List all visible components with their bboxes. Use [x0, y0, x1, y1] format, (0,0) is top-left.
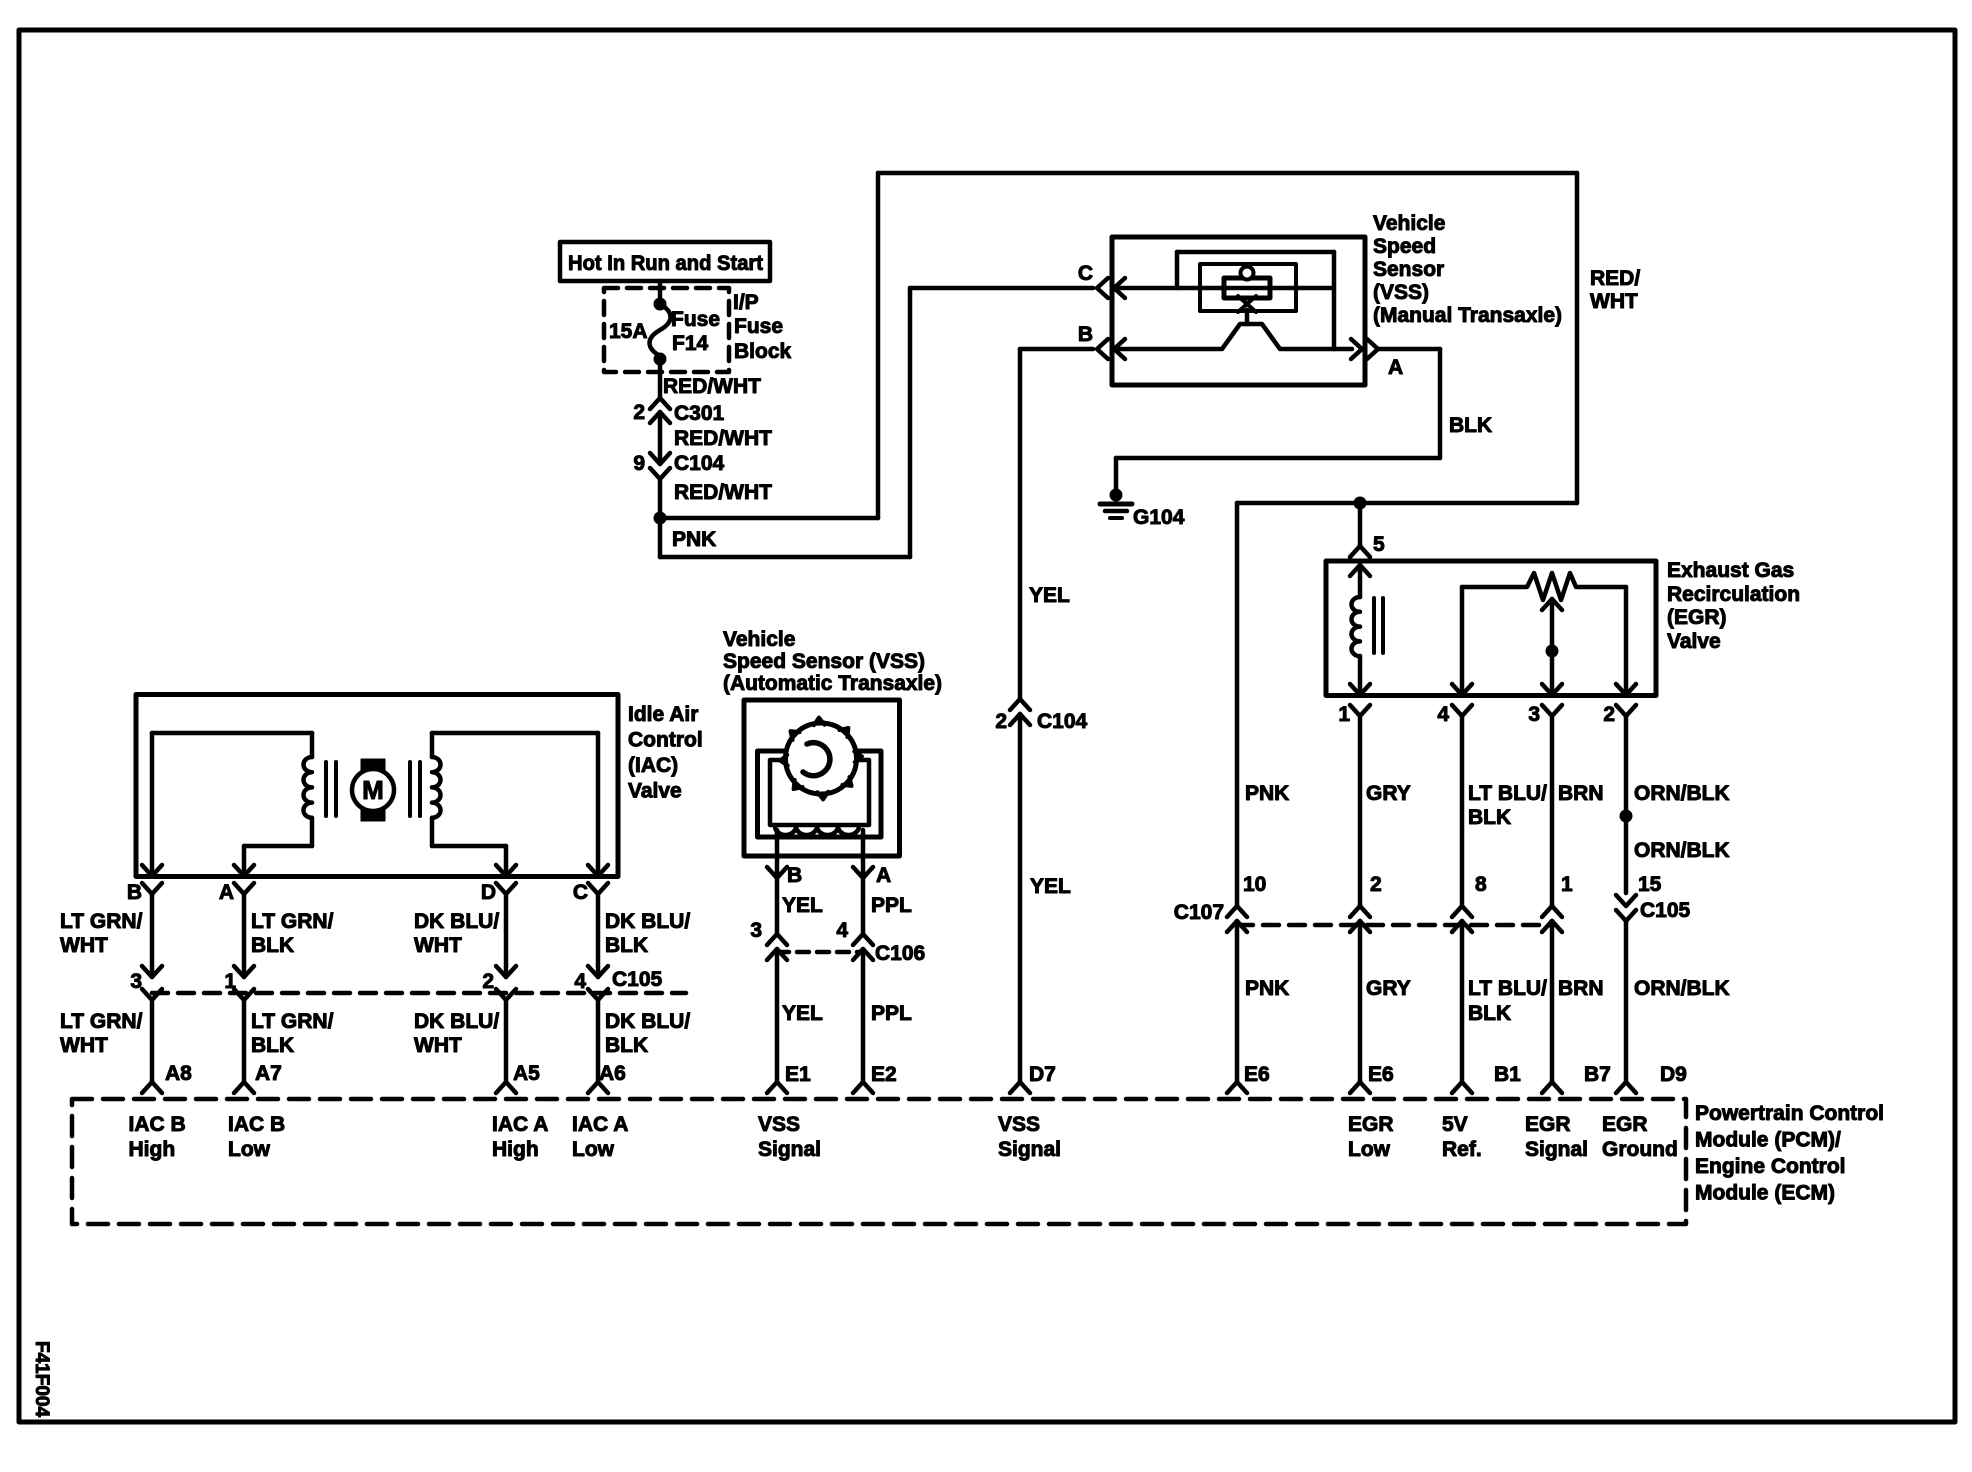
svg-text:YEL: YEL — [1029, 584, 1070, 607]
svg-text:E2: E2 — [871, 1063, 897, 1086]
svg-text:Valve: Valve — [628, 780, 682, 803]
svg-text:BLK: BLK — [1449, 414, 1492, 437]
svg-text:2: 2 — [1370, 873, 1382, 896]
svg-text:3: 3 — [1528, 703, 1540, 726]
svg-text:B: B — [1078, 323, 1093, 346]
svg-text:BRN: BRN — [1558, 977, 1604, 1000]
svg-text:PNK: PNK — [672, 528, 716, 551]
svg-text:PNK: PNK — [1245, 977, 1289, 1000]
svg-text:BLK: BLK — [1468, 806, 1511, 829]
svg-text:EGR: EGR — [1525, 1113, 1571, 1136]
svg-text:BLK: BLK — [251, 934, 294, 957]
svg-text:F41F004: F41F004 — [31, 1341, 52, 1417]
svg-text:YEL: YEL — [782, 894, 823, 917]
svg-text:M: M — [362, 775, 384, 805]
svg-text:VSS: VSS — [758, 1113, 800, 1136]
svg-text:C105: C105 — [612, 968, 663, 991]
svg-text:Speed: Speed — [1373, 235, 1436, 258]
svg-text:Module (ECM): Module (ECM) — [1695, 1182, 1835, 1205]
svg-text:C301: C301 — [674, 402, 725, 425]
svg-text:2: 2 — [482, 970, 494, 993]
svg-text:1: 1 — [224, 970, 236, 993]
svg-text:4: 4 — [574, 970, 586, 993]
svg-text:VSS: VSS — [998, 1113, 1040, 1136]
svg-text:DK BLU/: DK BLU/ — [414, 1010, 499, 1033]
svg-text:D9: D9 — [1660, 1063, 1687, 1086]
svg-text:BRN: BRN — [1558, 782, 1604, 805]
svg-text:4: 4 — [836, 919, 848, 942]
svg-text:YEL: YEL — [1030, 875, 1071, 898]
svg-text:RED/WHT: RED/WHT — [663, 375, 761, 398]
svg-text:C107: C107 — [1174, 901, 1224, 924]
svg-text:LT BLU/: LT BLU/ — [1468, 977, 1547, 1000]
svg-text:Vehicle: Vehicle — [723, 628, 795, 651]
svg-text:DK BLU/: DK BLU/ — [414, 910, 499, 933]
svg-text:BLK: BLK — [1468, 1002, 1511, 1025]
svg-text:(Manual Transaxle): (Manual Transaxle) — [1373, 304, 1562, 327]
svg-text:B1: B1 — [1494, 1063, 1521, 1086]
svg-text:C: C — [573, 881, 588, 904]
svg-text:A5: A5 — [513, 1062, 540, 1085]
svg-text:Fuse: Fuse — [734, 315, 783, 338]
svg-text:ORN/BLK: ORN/BLK — [1634, 839, 1730, 862]
svg-text:RED/WHT: RED/WHT — [674, 427, 772, 450]
svg-text:3: 3 — [130, 970, 142, 993]
svg-text:Valve: Valve — [1667, 630, 1721, 653]
svg-text:High: High — [129, 1138, 176, 1161]
svg-text:C104: C104 — [674, 452, 725, 475]
svg-text:Recirculation: Recirculation — [1667, 583, 1800, 606]
svg-text:PPL: PPL — [871, 894, 912, 917]
svg-text:9: 9 — [633, 452, 645, 475]
svg-text:(EGR): (EGR) — [1667, 606, 1727, 629]
svg-text:EGR: EGR — [1602, 1113, 1648, 1136]
svg-text:B: B — [787, 864, 802, 887]
svg-text:B: B — [127, 881, 142, 904]
svg-text:15: 15 — [1638, 873, 1662, 896]
svg-text:D7: D7 — [1029, 1063, 1056, 1086]
svg-text:GRY: GRY — [1366, 977, 1411, 1000]
svg-text:LT GRN/: LT GRN/ — [251, 1010, 334, 1033]
svg-text:E6: E6 — [1368, 1063, 1394, 1086]
svg-text:DK BLU/: DK BLU/ — [605, 1010, 690, 1033]
svg-text:A6: A6 — [599, 1062, 626, 1085]
svg-text:Module (PCM)/: Module (PCM)/ — [1695, 1129, 1841, 1152]
svg-text:G104: G104 — [1133, 506, 1185, 529]
svg-text:ORN/BLK: ORN/BLK — [1634, 782, 1730, 805]
svg-text:Signal: Signal — [758, 1138, 821, 1161]
svg-text:(Automatic Transaxle): (Automatic Transaxle) — [723, 672, 942, 695]
svg-text:LT GRN/: LT GRN/ — [60, 1010, 143, 1033]
svg-text:Speed Sensor (VSS): Speed Sensor (VSS) — [723, 650, 925, 673]
svg-text:Powertrain Control: Powertrain Control — [1695, 1102, 1884, 1125]
svg-text:WHT: WHT — [1590, 290, 1638, 313]
svg-text:LT GRN/: LT GRN/ — [251, 910, 334, 933]
svg-text:1: 1 — [1561, 873, 1573, 896]
svg-text:C: C — [1078, 262, 1093, 285]
svg-text:4: 4 — [1437, 703, 1449, 726]
svg-text:Low: Low — [228, 1138, 271, 1161]
svg-text:A8: A8 — [165, 1062, 192, 1085]
svg-text:IAC A: IAC A — [572, 1113, 628, 1136]
svg-text:WHT: WHT — [414, 934, 462, 957]
svg-text:ORN/BLK: ORN/BLK — [1634, 977, 1730, 1000]
svg-text:15A: 15A — [609, 320, 648, 343]
svg-text:(IAC): (IAC) — [628, 754, 678, 777]
svg-text:A: A — [876, 864, 891, 887]
svg-text:Vehicle: Vehicle — [1373, 212, 1445, 235]
svg-text:A: A — [1388, 356, 1403, 379]
svg-text:Low: Low — [1348, 1138, 1391, 1161]
svg-text:DK BLU/: DK BLU/ — [605, 910, 690, 933]
svg-text:RED/WHT: RED/WHT — [674, 481, 772, 504]
svg-text:BLK: BLK — [605, 1034, 648, 1057]
svg-text:C105: C105 — [1640, 899, 1691, 922]
svg-text:Ground: Ground — [1602, 1138, 1678, 1161]
svg-text:D: D — [481, 881, 496, 904]
svg-text:Ref.: Ref. — [1442, 1138, 1482, 1161]
svg-text:A: A — [219, 881, 234, 904]
svg-text:E1: E1 — [785, 1063, 811, 1086]
svg-text:BLK: BLK — [251, 1034, 294, 1057]
svg-text:B7: B7 — [1584, 1063, 1611, 1086]
svg-text:EGR: EGR — [1348, 1113, 1394, 1136]
svg-text:IAC B: IAC B — [129, 1113, 186, 1136]
svg-text:8: 8 — [1475, 873, 1487, 896]
svg-text:1: 1 — [1338, 703, 1350, 726]
svg-text:(VSS): (VSS) — [1373, 281, 1429, 304]
svg-text:2: 2 — [633, 401, 645, 424]
svg-text:WHT: WHT — [60, 934, 108, 957]
svg-text:F14: F14 — [672, 332, 709, 355]
svg-text:WHT: WHT — [60, 1034, 108, 1057]
svg-text:Signal: Signal — [998, 1138, 1061, 1161]
svg-text:Sensor: Sensor — [1373, 258, 1444, 281]
svg-text:YEL: YEL — [782, 1002, 823, 1025]
svg-text:C106: C106 — [875, 942, 925, 965]
svg-text:RED/: RED/ — [1590, 267, 1640, 290]
svg-text:Low: Low — [572, 1138, 615, 1161]
svg-text:10: 10 — [1243, 873, 1266, 896]
svg-text:Exhaust Gas: Exhaust Gas — [1667, 559, 1794, 582]
svg-text:IAC A: IAC A — [492, 1113, 548, 1136]
svg-text:IAC B: IAC B — [228, 1113, 285, 1136]
svg-text:I/P: I/P — [733, 291, 759, 314]
svg-text:LT BLU/: LT BLU/ — [1468, 782, 1547, 805]
svg-text:PNK: PNK — [1245, 782, 1289, 805]
svg-text:Signal: Signal — [1525, 1138, 1588, 1161]
svg-text:Idle Air: Idle Air — [628, 703, 698, 726]
svg-text:C104: C104 — [1037, 710, 1088, 733]
svg-text:2: 2 — [1603, 703, 1615, 726]
svg-text:3: 3 — [750, 919, 762, 942]
svg-text:Hot In Run and Start: Hot In Run and Start — [568, 252, 763, 275]
svg-text:WHT: WHT — [414, 1034, 462, 1057]
svg-text:BLK: BLK — [605, 934, 648, 957]
svg-text:GRY: GRY — [1366, 782, 1411, 805]
svg-text:Engine Control: Engine Control — [1695, 1155, 1846, 1178]
svg-text:2: 2 — [995, 710, 1007, 733]
svg-text:High: High — [492, 1138, 539, 1161]
svg-text:5V: 5V — [1442, 1113, 1468, 1136]
svg-text:5: 5 — [1373, 533, 1385, 556]
svg-text:A7: A7 — [255, 1062, 282, 1085]
svg-text:LT GRN/: LT GRN/ — [60, 910, 143, 933]
svg-text:Control: Control — [628, 729, 703, 752]
svg-text:Fuse: Fuse — [671, 308, 720, 331]
svg-text:Block: Block — [734, 340, 792, 363]
svg-text:E6: E6 — [1244, 1063, 1270, 1086]
svg-text:PPL: PPL — [871, 1002, 912, 1025]
